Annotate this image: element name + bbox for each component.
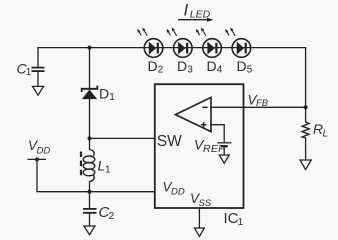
svg-text:REF: REF xyxy=(203,143,225,155)
IC1 box xyxy=(155,84,244,208)
LED D4 xyxy=(196,28,222,58)
LED D5 xyxy=(225,28,251,58)
wire right rail below resistor xyxy=(305,138,307,160)
capacitor C2 xyxy=(83,209,97,213)
wire VDD down and right to IC xyxy=(37,159,155,191)
minus input mark xyxy=(202,106,207,108)
wire C1 top xyxy=(37,48,39,67)
LED D2 xyxy=(137,28,163,58)
svg-text:D: D xyxy=(207,58,217,74)
wire right rail upper xyxy=(305,48,307,122)
svg-text:1: 1 xyxy=(26,67,32,78)
arrow ILED xyxy=(178,19,209,21)
svg-text:D: D xyxy=(177,58,187,74)
resistor RL xyxy=(302,122,309,138)
plus input mark xyxy=(201,122,206,127)
inductor L1 xyxy=(83,150,95,182)
node VDD supply xyxy=(35,157,39,161)
ground below C1 xyxy=(33,86,44,95)
ground below C2 xyxy=(84,226,95,235)
ground below VREF xyxy=(219,155,229,163)
svg-text:2: 2 xyxy=(158,65,164,76)
svg-text:SW: SW xyxy=(157,133,182,150)
wire C1 bottom xyxy=(37,72,39,87)
svg-text:DD: DD xyxy=(37,145,51,156)
capacitor C1 xyxy=(32,68,45,72)
svg-text:1: 1 xyxy=(238,216,244,228)
ground below VSS xyxy=(194,228,204,236)
svg-text:D: D xyxy=(99,86,109,102)
wire C2 bottom xyxy=(89,214,91,226)
wire VFB from op-amp to right rail xyxy=(211,106,306,108)
node junction VFB right rail xyxy=(304,105,308,109)
svg-text:SS: SS xyxy=(199,198,212,209)
svg-text:L: L xyxy=(323,128,329,139)
wire top rail xyxy=(38,47,306,49)
svg-text:3: 3 xyxy=(187,65,193,76)
node junction VDD/L1/C2 xyxy=(88,190,92,194)
svg-text:I: I xyxy=(184,1,189,20)
core of L1 xyxy=(80,152,82,179)
svg-text:5: 5 xyxy=(247,65,253,76)
svg-text:FB: FB xyxy=(256,98,269,109)
wire D1 bottom to L1 xyxy=(89,99,91,150)
svg-text:DD: DD xyxy=(171,187,185,198)
wire plus input to VREF cell xyxy=(211,125,224,143)
wire VDD tick xyxy=(28,158,46,160)
wire L1 bottom to C2 xyxy=(89,182,91,209)
svg-text:D: D xyxy=(237,58,247,74)
VREF cell xyxy=(217,143,231,146)
wire VREF cell to ground xyxy=(223,147,225,155)
op-amp inside IC1 xyxy=(175,97,211,131)
svg-text:1: 1 xyxy=(109,92,115,103)
svg-text:2: 2 xyxy=(109,210,115,222)
wire D1 top xyxy=(89,48,91,88)
node junction SW xyxy=(88,136,92,140)
ground below RL xyxy=(300,160,311,170)
svg-text:D: D xyxy=(148,58,158,74)
diode D1 (Schottky) xyxy=(82,86,98,99)
wire VSS pin xyxy=(198,208,200,228)
svg-text:4: 4 xyxy=(217,65,223,76)
svg-text:IC: IC xyxy=(224,210,239,227)
wire SW xyxy=(90,137,155,139)
svg-text:1: 1 xyxy=(105,165,111,176)
node junction D1 top rail xyxy=(88,46,92,50)
LED D3 xyxy=(167,28,193,58)
